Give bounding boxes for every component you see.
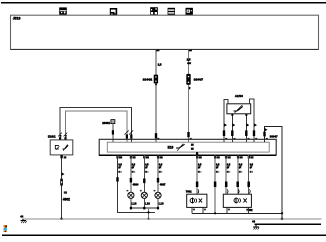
lamp L16-1 bbox=[128, 192, 134, 198]
label 7002 box1 bbox=[186, 190, 192, 194]
relay bottom pin wire 2 bbox=[245, 114, 247, 142]
wire to lamp L16-2 bbox=[143, 155, 145, 192]
junction dots right drop bbox=[281, 212, 284, 220]
pin specks relay wires bbox=[225, 138, 257, 139]
wire E26 to ground bus bbox=[61, 155, 63, 219]
wire 20061 to strip bbox=[112, 124, 114, 143]
E16 output pin tick bbox=[196, 152, 198, 155]
connector strip outer box bbox=[99, 139, 276, 155]
switch E16 contact icon bbox=[176, 144, 185, 151]
arrow below fuse S244/2 bbox=[155, 84, 158, 86]
label A2/10 bbox=[235, 94, 243, 98]
location icon 1 bbox=[59, 7, 67, 14]
location icon 5 bbox=[186, 8, 193, 15]
wire loop outer (E26 pin 1 to strip) bbox=[60, 108, 131, 143]
relay right loop wire bbox=[250, 99, 254, 142]
crossing slash at strip pins bbox=[125, 130, 134, 134]
relay contact icon bbox=[234, 105, 243, 113]
svg-text:80047: 80047 bbox=[270, 135, 278, 139]
wire strip pin to ground bus (right loop) bbox=[265, 127, 283, 219]
connector arrow stub wire bbox=[265, 128, 268, 131]
connector arrow on E26 ground wire bbox=[62, 172, 65, 176]
connector hooks above consumers bbox=[198, 189, 250, 193]
switch E26 box bbox=[50, 140, 73, 155]
relay left loop wire bbox=[224, 100, 228, 143]
pin tick wire A bbox=[156, 50, 159, 52]
ground line 44 right bbox=[255, 223, 321, 225]
pin tick below E26 bbox=[60, 155, 66, 158]
label S244/2 bbox=[143, 77, 153, 81]
lamp common bus bbox=[131, 207, 158, 209]
label 8047 bbox=[270, 135, 278, 139]
svg-text:gr: gr bbox=[239, 166, 241, 169]
switch contact icon in E26 bbox=[62, 144, 68, 150]
pin ticks and labels strip bottom bbox=[116, 155, 253, 158]
wire to V-motor 1 bbox=[196, 155, 198, 194]
colour code ticks relay wires bbox=[223, 130, 255, 136]
svg-text:7002: 7002 bbox=[246, 208, 253, 212]
svg-text:gr: gr bbox=[118, 166, 120, 169]
ground symbol 44 right bbox=[252, 220, 259, 230]
wire to V-motor 2 pin c bbox=[248, 155, 250, 194]
colour code tick 20061 wire bbox=[112, 130, 114, 134]
lamp icon in E26 bbox=[55, 145, 59, 149]
pin tick wire B bbox=[189, 50, 192, 52]
wire spec label 2,5 sw bbox=[187, 58, 192, 66]
svg-text:4007: 4007 bbox=[160, 182, 166, 186]
wire to V-motor 2 pin b bbox=[237, 155, 239, 194]
bottom border rule bbox=[2, 234, 326, 236]
svg-text:20061: 20061 bbox=[102, 121, 110, 125]
switch E16 label bbox=[168, 145, 174, 149]
colour ticks lamp wires bbox=[130, 178, 160, 183]
relay bottom pin wire 1 bbox=[231, 114, 233, 142]
E16 pin labels bbox=[191, 144, 194, 150]
lamp bottom wires bbox=[131, 198, 158, 208]
pin speck wire A bbox=[157, 138, 159, 139]
lamp bus drop to ground bbox=[148, 208, 150, 219]
fuse S244/7 bbox=[186, 74, 190, 85]
top border rule bbox=[1, 2, 326, 4]
control unit J519 box bbox=[11, 15, 319, 49]
wire code specks strip bottom bbox=[118, 171, 253, 173]
svg-text:J519: J519 bbox=[13, 17, 21, 21]
lamp bus junction ticks bbox=[130, 207, 159, 210]
colour code tick wire B bbox=[187, 132, 189, 137]
junction dot E26 ground bbox=[60, 218, 63, 221]
labels L16 bbox=[132, 202, 164, 206]
wire A (J519 pin to fuse S244/2 to connector strip) bbox=[155, 49, 157, 142]
colour ticks right wires bbox=[196, 182, 250, 188]
svg-text:4002: 4002 bbox=[63, 197, 70, 201]
svg-text:gr: gr bbox=[198, 166, 200, 169]
colour code tick wire A bbox=[155, 133, 157, 138]
wire spec label 2,5 ro bbox=[158, 63, 162, 67]
label S244/7 bbox=[194, 77, 204, 81]
pin speck wire B bbox=[190, 138, 192, 139]
pin ticks on E26 top bbox=[59, 137, 67, 140]
wire B (J519 pin to fuse S244/7 to connector strip) bbox=[188, 49, 190, 142]
box1 bottom pins bbox=[192, 207, 206, 213]
fuse S244/2 bbox=[154, 75, 158, 84]
svg-text:L16: L16 bbox=[132, 202, 137, 206]
svg-text:gr: gr bbox=[227, 166, 229, 169]
wire loop inner (E26 pin 2 to strip) bbox=[66, 111, 127, 142]
location icon 3 bbox=[150, 7, 158, 15]
motor V201 box bbox=[187, 194, 207, 207]
svg-text:L16: L16 bbox=[145, 202, 150, 206]
svg-text:E16: E16 bbox=[168, 145, 174, 149]
location icon 4 bbox=[168, 8, 175, 15]
junction dots lamp drop bbox=[147, 211, 149, 220]
relay pin ticks bbox=[231, 114, 247, 116]
ground bus 31 bbox=[22, 218, 322, 220]
page marker glyph bbox=[4, 225, 7, 232]
lamp pin specks bbox=[127, 190, 156, 192]
label E26 bbox=[48, 135, 67, 139]
svg-text:gr: gr bbox=[250, 166, 252, 169]
connector 20061 bbox=[102, 120, 115, 126]
pin speck stub wire bbox=[266, 138, 268, 139]
wire gauge labels strip bottom bbox=[118, 163, 253, 169]
ground symbol 44 left bbox=[20, 215, 26, 223]
svg-text:E26/1: E26/1 bbox=[48, 135, 56, 139]
wire to V-motor 2 pin a bbox=[225, 155, 227, 194]
svg-text:2,5: 2,5 bbox=[158, 63, 162, 67]
colour code tick stub wire bbox=[263, 132, 265, 137]
wire to junction L (leftmost) bbox=[118, 155, 156, 212]
label 7002 box2 bbox=[246, 208, 253, 212]
label J519 bbox=[13, 17, 21, 21]
motor icon box2 bbox=[234, 198, 247, 204]
labels 4004 lamp wires bbox=[133, 182, 166, 186]
inline connector on E26 ground wire bbox=[60, 179, 63, 186]
box2 bottom pins bbox=[227, 207, 249, 213]
svg-text:gr: gr bbox=[145, 166, 147, 169]
svg-text:S244/2: S244/2 bbox=[143, 77, 153, 81]
crossing slash at E26 pins bbox=[58, 133, 67, 137]
location icon 2 bbox=[110, 8, 117, 16]
connector strip inner box bbox=[107, 142, 269, 152]
motor icon box1 bbox=[190, 198, 202, 204]
connector arrows relay wires bbox=[224, 123, 257, 127]
wire to lamp L16-1 bbox=[130, 155, 132, 192]
junction dot middle wire bbox=[214, 212, 216, 214]
motor V202 box bbox=[223, 194, 251, 207]
svg-text:7002: 7002 bbox=[186, 190, 192, 194]
svg-text:A2/10: A2/10 bbox=[235, 94, 243, 98]
wire to bottom bus (middle) bbox=[214, 155, 216, 213]
svg-text:L16: L16 bbox=[159, 202, 164, 206]
svg-text:gr: gr bbox=[159, 166, 161, 169]
label 4002 bbox=[63, 197, 70, 201]
lamp L16-3 bbox=[155, 192, 161, 198]
wire to lamp L16-3 bbox=[157, 155, 159, 192]
colour tick leftmost wire bbox=[116, 177, 118, 181]
colour code ticks loop wires bbox=[126, 134, 133, 138]
svg-text:gr: gr bbox=[216, 166, 218, 169]
consumer common bus bbox=[192, 212, 282, 214]
relay box A2 bbox=[227, 104, 251, 114]
label speck on E26 ground wire bbox=[64, 191, 67, 193]
svg-text:gr: gr bbox=[132, 166, 134, 169]
svg-text:S244/7: S244/7 bbox=[194, 77, 204, 81]
svg-text:4004: 4004 bbox=[133, 182, 139, 186]
label 2 below fuse bbox=[189, 86, 191, 90]
lamp L16-2 bbox=[141, 192, 147, 198]
